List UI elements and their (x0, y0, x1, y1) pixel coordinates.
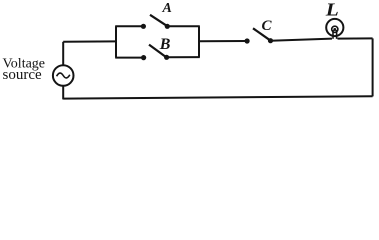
lamp filament loop (332, 26, 338, 32)
wire: top branch left segment (115, 25, 143, 27)
wire: switch C to lamp (271, 39, 333, 41)
wire: source bottom lead (62, 86, 64, 100)
lamp lead right (336, 30, 338, 39)
node: switch C left contact (245, 38, 250, 43)
voltage source U1 (53, 65, 74, 86)
wire: right vertical (372, 38, 374, 96)
wire: top branch right segment (167, 25, 200, 27)
wire: middle horizontal to switch C (199, 40, 247, 42)
node: switch C right contact (268, 38, 273, 43)
node: switch B left contact (141, 55, 146, 60)
svg-text:L: L (325, 1, 339, 20)
wire: parallel box right vertical (198, 26, 200, 57)
wire: parallel box left vertical (115, 26, 117, 57)
wire: bottom branch left segment (115, 57, 143, 59)
node: switch B right contact (164, 55, 169, 60)
svg-text:C: C (262, 18, 273, 34)
wire: source top lead (62, 42, 64, 65)
svg-text:B: B (159, 36, 171, 53)
switch B blade (149, 45, 165, 57)
sine symbol inside source (57, 73, 70, 78)
wire: bottom branch right segment (167, 56, 200, 58)
lamp filament dot (333, 28, 336, 31)
wire: top-left horizontal (63, 40, 116, 42)
node: switch A right contact (165, 24, 170, 29)
svg-text:source: source (3, 67, 42, 83)
switch A blade (150, 15, 167, 26)
lamp L outer circle (326, 19, 343, 36)
svg-text:A: A (162, 1, 172, 16)
node: switch A left contact (141, 24, 146, 29)
switch C blade (253, 28, 269, 40)
wire: lamp to right edge (338, 37, 373, 39)
lamp lead left (332, 30, 334, 39)
wire: bottom horizontal (63, 96, 372, 98)
